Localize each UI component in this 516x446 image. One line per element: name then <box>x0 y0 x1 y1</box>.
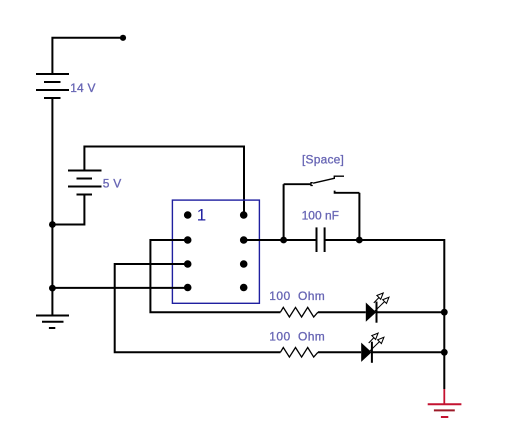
node D <box>280 237 287 244</box>
svg-text:100 nF: 100 nF <box>302 209 339 223</box>
svg-text:5 V: 5 V <box>103 177 122 191</box>
svg-text:100 Ohm: 100 Ohm <box>269 289 325 303</box>
node B <box>49 221 56 228</box>
wire <box>115 264 281 352</box>
wire <box>377 311 445 313</box>
pin dots U1 <box>184 211 248 291</box>
wire <box>283 184 285 240</box>
switch S1 <box>284 176 360 240</box>
ground <box>36 316 69 329</box>
wire <box>52 38 123 74</box>
battery V2 <box>68 171 102 195</box>
node F <box>441 309 448 316</box>
wire <box>51 98 53 316</box>
wire <box>84 147 244 216</box>
wire <box>244 239 316 241</box>
node E <box>356 237 363 244</box>
IC U1 <box>172 200 259 303</box>
label 100 Ohm (R2) <box>269 330 325 344</box>
pin 1 label <box>197 206 206 225</box>
wire <box>150 240 280 312</box>
svg-text:[Space]: [Space] <box>302 152 344 166</box>
resistor R2 <box>280 348 318 358</box>
wire <box>359 240 444 389</box>
wire <box>52 195 84 225</box>
node G <box>441 349 448 356</box>
wire <box>325 239 444 241</box>
wire <box>443 389 445 404</box>
node A <box>120 35 126 41</box>
label 100 nF <box>302 209 339 223</box>
resistor R1 <box>280 307 318 317</box>
battery V1 <box>36 74 69 98</box>
wire <box>52 287 187 289</box>
label [Space] <box>302 152 344 166</box>
LED D2 <box>361 333 384 363</box>
wire <box>318 311 366 313</box>
capacitor C1 <box>317 227 325 252</box>
label 100 Ohm (R1) <box>269 289 325 303</box>
node C <box>49 285 56 292</box>
svg-text:14 V: 14 V <box>70 81 96 95</box>
wire <box>318 351 361 353</box>
LED D1 <box>366 293 389 323</box>
ground (red) <box>428 404 462 417</box>
svg-text:100 Ohm: 100 Ohm <box>269 330 325 344</box>
svg-text:1: 1 <box>197 206 206 225</box>
wire <box>372 351 444 353</box>
label 14 V <box>70 81 96 95</box>
label 5 V <box>103 177 122 191</box>
